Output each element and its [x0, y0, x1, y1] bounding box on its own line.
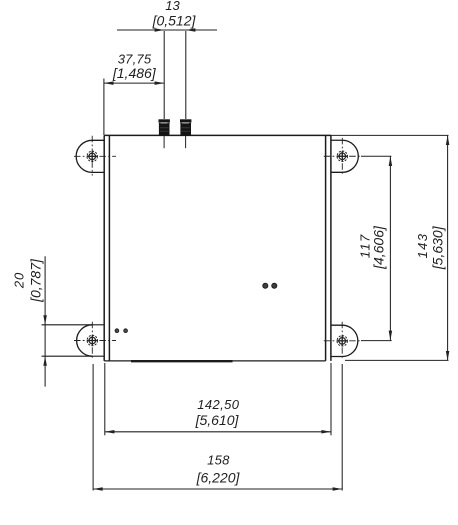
connector J1 stub line [163, 136, 165, 148]
centerlines top-right hole [324, 138, 362, 176]
connector J2 stub line [185, 136, 187, 148]
dimension 117 arrows [389, 156, 393, 166]
bottom protrusion thick segment [131, 360, 233, 362]
LED pair middle-right [263, 283, 268, 288]
mounting tab top-left [76, 140, 104, 172]
centerlines top-left hole [74, 136, 116, 176]
mounting hole bottom-right [337, 336, 347, 346]
svg-text:13: 13 [165, 0, 180, 13]
left outer edge [103, 135, 105, 361]
dimension 158 arrows [93, 487, 103, 491]
svg-text:[0,512]: [0,512] [152, 12, 197, 28]
mounting hole top-left [87, 151, 97, 161]
dimension 158 [6,220] line [93, 364, 342, 491]
right inner edge [325, 135, 327, 361]
dimension 13 arrows [155, 28, 165, 32]
dimension 143 arrows [446, 135, 450, 145]
svg-text:158: 158 [207, 453, 230, 468]
dimension 13 [0,512] line [117, 30, 217, 119]
right outer edge [330, 135, 332, 361]
svg-text:[0,787]: [0,787] [27, 258, 43, 303]
mounting tab top-right [331, 140, 358, 172]
centerlines bottom-right hole [324, 322, 362, 359]
dimension 37,75 [1,486] line [104, 79, 164, 136]
svg-text:[4,606]: [4,606] [371, 225, 387, 270]
dimension 143 [5,630] line [331, 135, 449, 360]
mounting tab bottom-left (lines double as 20mm extension lines) [42, 325, 105, 356]
dimension 37,75 arrows [104, 81, 114, 85]
svg-text:143: 143 [415, 233, 430, 259]
dimension 117 [4,606] line [361, 156, 392, 340]
svg-text:[5,610]: [5,610] [195, 412, 240, 428]
enclosure body outline [104, 135, 331, 361]
mounting tab bottom-right [331, 325, 358, 356]
svg-text:20: 20 [11, 272, 26, 289]
connector J1 [159, 119, 170, 135]
mounting hole top-right [337, 151, 347, 161]
svg-text:[1,486]: [1,486] [112, 65, 157, 81]
left inner edge [108, 135, 110, 361]
svg-text:[6,220]: [6,220] [196, 470, 241, 486]
bottom edge [104, 360, 325, 362]
dimension 20 [0,787] line [44, 256, 46, 386]
LED pair bottom-left [115, 329, 119, 333]
top edge [104, 134, 331, 136]
dimension 20 arrows [43, 315, 47, 325]
dimension 142,50 arrows [105, 430, 115, 434]
mounting hole bottom-left [87, 335, 97, 345]
centerlines bottom-left hole [74, 322, 116, 359]
svg-text:[5,630]: [5,630] [429, 225, 445, 270]
svg-text:142,50: 142,50 [197, 397, 240, 412]
connector J2 [180, 119, 191, 135]
dimension 142,50 [5,610] line [105, 363, 331, 435]
